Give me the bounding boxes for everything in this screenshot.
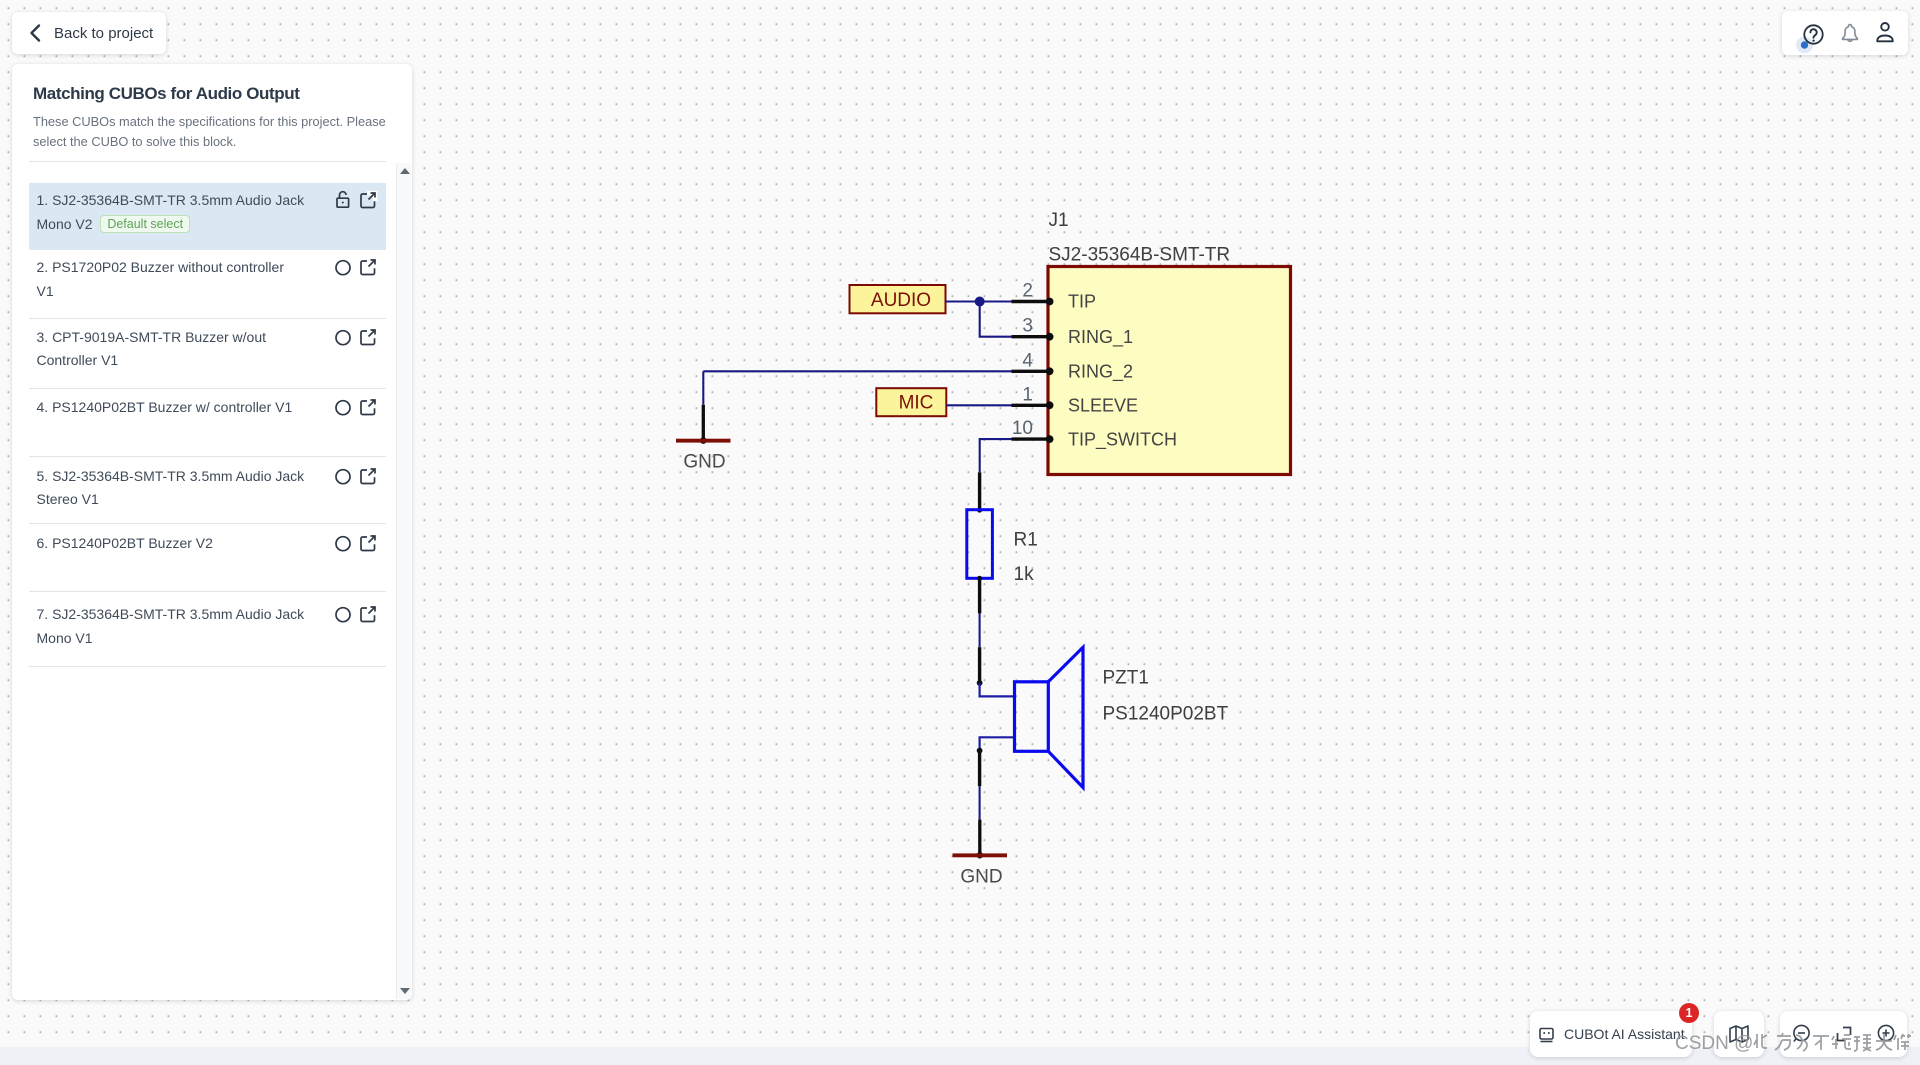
svg-text:SLEEVE: SLEEVE (1068, 396, 1138, 416)
wire down to ground PWR1 (702, 371, 704, 405)
svg-text:PZT1: PZT1 (1103, 667, 1149, 688)
svg-text:10: 10 (1012, 418, 1033, 439)
wire junction down to pin 3 (980, 302, 1012, 337)
svg-text:TIP_SWITCH: TIP_SWITCH (1068, 429, 1177, 450)
junction node at AUDIO branch (975, 297, 985, 307)
svg-text:2: 2 (1022, 281, 1033, 302)
left panel (12, 64, 412, 1000)
svg-text:4: 4 (1022, 350, 1033, 371)
bell icon (1838, 21, 1862, 45)
pin 4 RING_2 (1012, 350, 1134, 382)
robot icon (1538, 1026, 1555, 1043)
svg-text:1: 1 (1022, 384, 1033, 405)
list item 1 selected (29, 183, 387, 250)
badge 1 (1679, 1003, 1699, 1023)
svg-text:SJ2-35364B-SMT-TR: SJ2-35364B-SMT-TR (1049, 245, 1231, 266)
svg-text:MIC: MIC (899, 393, 934, 414)
help icon with blue dot (1793, 13, 1827, 53)
wire AUDIO to pin 2 (946, 300, 1012, 302)
wire pin 4 RING_2 to GND (703, 370, 1011, 372)
pin 10 TIP_SWITCH (1012, 418, 1178, 450)
PZT1 value PS1240P02BT (1103, 704, 1229, 725)
list item 4 (29, 388, 387, 456)
list item 3 (29, 318, 387, 388)
CUBOt AI Assistant button (1530, 1011, 1692, 1057)
pin 2 TIP (1012, 281, 1097, 312)
pin 3 RING_1 (1012, 316, 1134, 348)
pin 1 SLEEVE (1012, 384, 1139, 415)
connector J1 body (1048, 267, 1291, 475)
back to project button (12, 12, 166, 54)
map button (1714, 1011, 1764, 1057)
person icon (1873, 20, 1897, 46)
net label MIC (876, 388, 946, 416)
watermark (1675, 1031, 1911, 1055)
svg-text:3: 3 (1022, 316, 1033, 337)
R1 value 1k (1014, 564, 1035, 585)
zoom out icon (1791, 1023, 1813, 1045)
list item 5 (29, 456, 387, 524)
svg-text:GND: GND (960, 866, 1002, 887)
ground PWR2 (953, 820, 1008, 888)
buzzer PZT1 (977, 647, 1083, 787)
R1 reference text (1014, 530, 1038, 551)
svg-text:R1: R1 (1014, 530, 1038, 551)
svg-text:GND: GND (683, 451, 725, 472)
wire MIC to pin 1 (946, 404, 1011, 406)
zoom in icon (1875, 1023, 1897, 1045)
list item 6 (29, 523, 387, 591)
list item 2 (29, 250, 387, 318)
reference J1 (1049, 210, 1069, 231)
svg-text:RING_1: RING_1 (1068, 327, 1133, 348)
net label AUDIO (850, 285, 946, 313)
list item 7 (29, 591, 387, 666)
wire R1 to PZT1 (979, 613, 981, 647)
value SJ2-35364B-SMT-TR (1049, 245, 1231, 266)
svg-text:RING_2: RING_2 (1068, 362, 1133, 383)
PZT1 reference text (1103, 667, 1149, 688)
svg-text:AUDIO: AUDIO (871, 290, 931, 311)
svg-text:J1: J1 (1049, 210, 1069, 231)
wire PZT1 to ground PWR2 (979, 786, 981, 820)
zoom buttons (1780, 1011, 1907, 1057)
wire pin 10 to R1 (980, 439, 1012, 472)
svg-text:1k: 1k (1014, 564, 1035, 585)
fit view icon (1834, 1024, 1854, 1044)
top right card (1782, 11, 1908, 55)
ground PWR1 (676, 405, 731, 473)
resistor R1 (967, 472, 993, 613)
svg-text:PS1240P02BT: PS1240P02BT (1103, 704, 1229, 725)
svg-text:TIP: TIP (1068, 292, 1096, 312)
bottom strip (0, 1047, 1920, 1065)
